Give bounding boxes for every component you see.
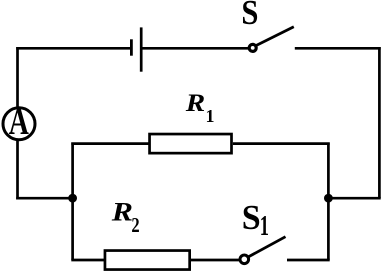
svg-text:2: 2 — [131, 214, 139, 237]
wire bottom-right horizontal — [327, 197, 381, 200]
switch S blade — [256, 27, 293, 46]
wire switch S to top-right corner — [295, 47, 381, 50]
wire top-left horizontal (battery negative to left corner) — [16, 47, 130, 50]
svg-text:R: R — [111, 198, 133, 227]
wire right branch vertical — [327, 143, 330, 260]
svg-text:R: R — [185, 89, 205, 117]
node left junction — [68, 194, 77, 203]
resistor R2 body — [105, 251, 190, 270]
resistor R1 body — [150, 134, 232, 153]
wire R2 left lead — [71, 259, 105, 262]
svg-text:S: S — [241, 0, 258, 32]
wire right vertical — [378, 47, 381, 198]
wire R2 to switch S1 — [190, 259, 239, 262]
svg-text:S: S — [242, 199, 261, 238]
switch S1 blade — [249, 237, 286, 257]
ammeter A body circle — [3, 108, 35, 140]
switch S pivot circle — [249, 44, 256, 51]
battery B1 long plate — [140, 27, 143, 71]
node right junction — [324, 194, 333, 203]
wire bottom-left horizontal — [16, 197, 74, 200]
wire left vertical upper (top corner to ammeter) — [16, 47, 19, 108]
svg-text:1: 1 — [206, 106, 215, 126]
wire switch S1 to right branch — [287, 259, 330, 262]
svg-text:A: A — [9, 101, 29, 143]
svg-text:1: 1 — [260, 210, 269, 242]
wire R1 right lead — [233, 142, 330, 145]
wire left branch vertical — [71, 143, 74, 260]
switch S1 pivot circle — [240, 255, 249, 264]
wire battery to switch S — [141, 47, 248, 50]
wire left vertical lower (ammeter to bottom corner) — [16, 140, 19, 200]
wire R1 left lead — [71, 142, 149, 145]
battery B1 short plate — [130, 39, 133, 55]
